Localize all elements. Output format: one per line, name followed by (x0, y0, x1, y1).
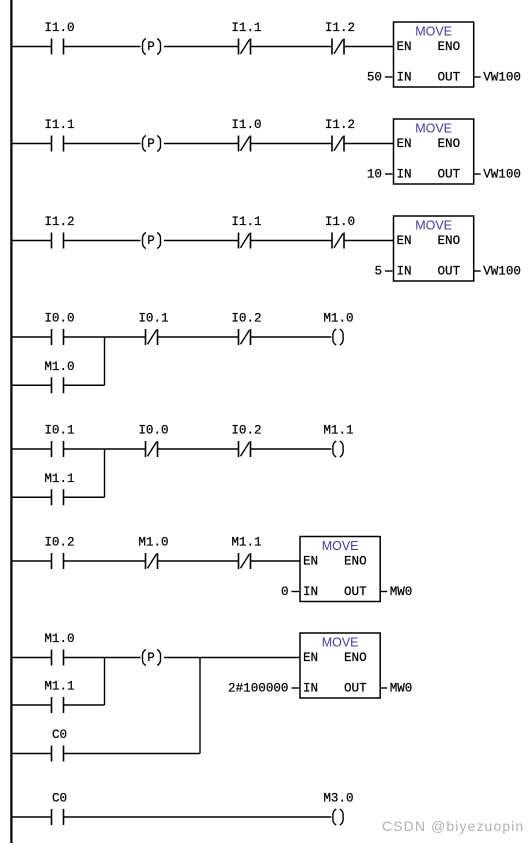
svg-text:M1.0: M1.0 (138, 536, 168, 550)
svg-text:I1.1: I1.1 (231, 21, 261, 35)
svg-text:VW100: VW100 (483, 168, 521, 182)
svg-text:M1.1: M1.1 (44, 472, 74, 486)
svg-text:M1.0: M1.0 (44, 632, 74, 646)
svg-text:CSDN @biyezuopin: CSDN @biyezuopin (382, 818, 524, 834)
svg-text:VW100: VW100 (483, 71, 521, 85)
svg-text:C0: C0 (52, 728, 67, 742)
svg-text:M1.1: M1.1 (231, 536, 261, 550)
svg-text:ENO: ENO (438, 234, 461, 248)
svg-text:I0.1: I0.1 (44, 424, 74, 438)
svg-text:MOVE: MOVE (322, 636, 359, 650)
svg-text:ENO: ENO (344, 555, 367, 569)
svg-text:EN: EN (303, 651, 318, 665)
svg-text:MOVE: MOVE (415, 219, 452, 233)
svg-text:OUT: OUT (344, 585, 367, 599)
svg-text:OUT: OUT (344, 682, 367, 696)
svg-text:ENO: ENO (344, 651, 367, 665)
svg-text:EN: EN (397, 137, 412, 151)
svg-text:IN: IN (397, 168, 412, 182)
svg-text:I1.1: I1.1 (231, 215, 261, 229)
svg-text:MW0: MW0 (390, 585, 413, 599)
svg-text:VW100: VW100 (483, 265, 521, 279)
svg-text:M3.0: M3.0 (323, 792, 353, 806)
svg-text:I1.0: I1.0 (231, 118, 261, 132)
svg-text:I0.2: I0.2 (231, 312, 261, 326)
svg-text:EN: EN (397, 234, 412, 248)
svg-text:ENO: ENO (438, 40, 461, 54)
svg-text:I1.0: I1.0 (325, 215, 355, 229)
svg-text:ENO: ENO (438, 137, 461, 151)
svg-text:IN: IN (397, 265, 412, 279)
svg-text:2#100000: 2#100000 (228, 682, 288, 696)
svg-text:M1.0: M1.0 (44, 360, 74, 374)
svg-text:M1.1: M1.1 (323, 424, 353, 438)
svg-text:OUT: OUT (438, 71, 461, 85)
svg-text:MOVE: MOVE (322, 539, 359, 553)
svg-text:P: P (147, 40, 155, 54)
svg-text:OUT: OUT (438, 265, 461, 279)
svg-text:I0.2: I0.2 (44, 536, 74, 550)
svg-text:5: 5 (374, 265, 382, 279)
svg-text:I0.0: I0.0 (44, 312, 74, 326)
svg-text:0: 0 (281, 585, 289, 599)
svg-text:I0.1: I0.1 (138, 312, 168, 326)
svg-text:EN: EN (397, 40, 412, 54)
svg-text:MW0: MW0 (390, 682, 413, 696)
svg-text:I0.2: I0.2 (231, 424, 261, 438)
svg-text:IN: IN (303, 682, 318, 696)
svg-text:IN: IN (397, 71, 412, 85)
svg-text:I1.2: I1.2 (325, 118, 355, 132)
svg-text:OUT: OUT (438, 168, 461, 182)
svg-text:M1.0: M1.0 (323, 312, 353, 326)
svg-text:C0: C0 (52, 792, 67, 806)
svg-text:MOVE: MOVE (415, 25, 452, 39)
svg-text:MOVE: MOVE (415, 122, 452, 136)
svg-text:I1.2: I1.2 (44, 215, 74, 229)
svg-text:50: 50 (367, 71, 382, 85)
svg-text:P: P (147, 651, 155, 665)
svg-text:M1.1: M1.1 (44, 680, 74, 694)
svg-text:P: P (147, 234, 155, 248)
svg-text:I1.2: I1.2 (325, 21, 355, 35)
svg-text:I0.0: I0.0 (138, 424, 168, 438)
svg-text:IN: IN (303, 585, 318, 599)
svg-text:I1.0: I1.0 (44, 21, 74, 35)
svg-text:I1.1: I1.1 (44, 118, 74, 132)
svg-text:EN: EN (303, 555, 318, 569)
svg-text:10: 10 (367, 168, 382, 182)
svg-text:P: P (147, 137, 155, 151)
